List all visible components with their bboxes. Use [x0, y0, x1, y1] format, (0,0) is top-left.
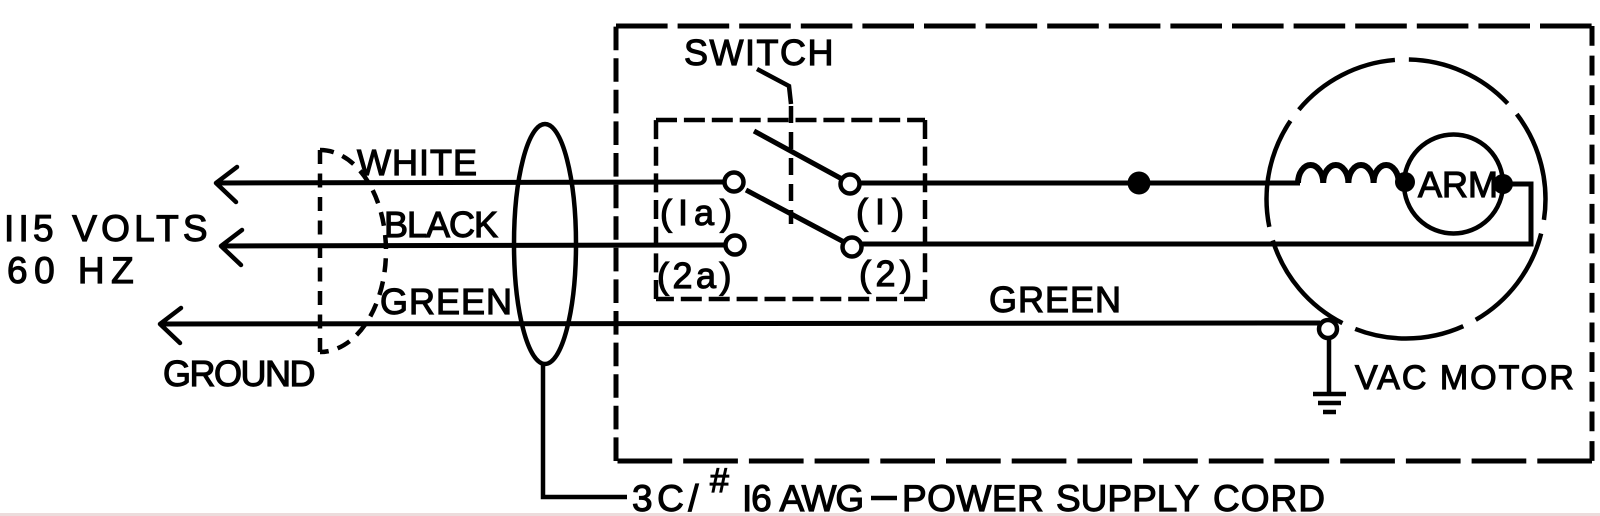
motor outline dashed circle	[1267, 60, 1546, 339]
junction dot	[1128, 172, 1151, 195]
svg-text:(2a): (2a)	[657, 255, 735, 296]
svg-text:I6 AWG: I6 AWG	[742, 478, 863, 516]
wire GREEN	[160, 323, 1320, 324]
svg-text:60 HZ: 60 HZ	[7, 250, 140, 291]
switch terminal (1a)	[725, 173, 744, 192]
cord label dash	[871, 496, 897, 501]
svg-text:POWER: POWER	[902, 478, 1044, 516]
armature left terminal dot	[1395, 172, 1415, 192]
faint bottom scan line	[0, 513, 1600, 516]
switch leader line	[757, 69, 791, 104]
svg-text:(Ia): (Ia)	[660, 192, 738, 233]
enclosure dashed box	[616, 26, 1592, 461]
svg-text:CORD: CORD	[1213, 478, 1326, 516]
svg-text:GROUND: GROUND	[163, 353, 314, 394]
switch S1 dashed box	[656, 120, 925, 299]
svg-text:(2): (2)	[859, 253, 917, 294]
svg-text:SUPPLY: SUPPLY	[1056, 478, 1199, 516]
svg-text:BLACK: BLACK	[384, 204, 498, 245]
svg-text:SWITCH: SWITCH	[684, 32, 835, 73]
svg-text:WHITE: WHITE	[357, 142, 478, 183]
switch terminal (2)	[843, 238, 862, 257]
svg-text:VAC MOTOR: VAC MOTOR	[1355, 359, 1576, 397]
switch linkage dashed line	[789, 106, 794, 224]
strain relief dashed D-shape	[320, 150, 386, 352]
armature U1 circle	[1404, 135, 1503, 234]
svg-text:ARM: ARM	[1418, 164, 1498, 205]
svg-text:(I): (I)	[856, 191, 911, 232]
field coil L1	[1298, 165, 1399, 183]
cord leader line	[543, 364, 627, 497]
wire BLACK	[221, 245, 725, 246]
switch blade pole 2	[746, 190, 844, 242]
armature right terminal dot	[1493, 174, 1513, 194]
svg-text:GREEN: GREEN	[989, 279, 1122, 320]
arrow green lead	[160, 308, 181, 343]
ground lead wire	[1327, 338, 1332, 393]
wire WHITE	[216, 182, 724, 183]
ground symbol	[1313, 394, 1346, 412]
svg-text:3C/: 3C/	[632, 478, 703, 516]
wire switch (1) to field coil	[860, 181, 1300, 186]
switch terminal (2a)	[726, 236, 745, 255]
green terminal circle	[1319, 320, 1337, 338]
switch blade pole 1	[754, 131, 842, 179]
switch terminal (1)	[841, 175, 860, 194]
cord grommet ellipse	[514, 124, 576, 364]
svg-text:#: #	[710, 462, 729, 500]
svg-text:GREEN: GREEN	[380, 281, 513, 322]
arrow black lead	[221, 230, 242, 265]
arrow white lead	[216, 167, 237, 202]
svg-text:II5 VOLTS: II5 VOLTS	[4, 208, 212, 249]
wire armature to right corner	[862, 184, 1531, 244]
